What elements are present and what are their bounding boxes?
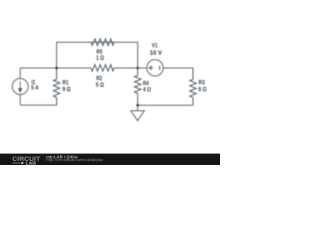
ground (131, 105, 145, 121)
ground node junction dot (136, 104, 139, 107)
label R4 value "4 Ω" (143, 81, 151, 92)
CircuitLab logo (12, 157, 40, 165)
I1 current direction arrow (19, 81, 22, 92)
label R2 value "5 Ω" (96, 76, 104, 87)
node junction B dot (136, 67, 139, 70)
label V1 value "10 V" (150, 43, 162, 55)
resistor R1 (53, 68, 59, 105)
resistor R4 (135, 68, 141, 105)
resistor R5 (91, 39, 114, 46)
node junction A dot (55, 67, 58, 70)
wire node A rail (20, 67, 138, 69)
wire bottom-left rail (20, 104, 56, 106)
voltage source V1 (138, 60, 193, 76)
label I1 value "5 A" (31, 80, 38, 90)
wire bottom-right rail (138, 104, 193, 106)
wire top rail (57, 42, 138, 68)
footer bar (0, 154, 220, 165)
resistor R2 (91, 65, 114, 72)
label R1 value "9 Ω" (63, 80, 71, 91)
label R5 value "1 Ω" (96, 49, 103, 59)
resistor R3 (190, 68, 196, 105)
footer text (46, 155, 103, 162)
V1 polarity marks + and - (149, 66, 160, 71)
current source I1 (12, 68, 28, 105)
label R3 value "6 Ω" (199, 80, 207, 91)
